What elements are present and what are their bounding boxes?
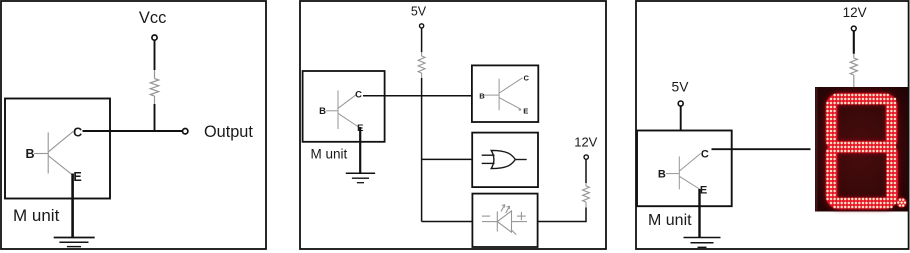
ground [346,173,375,182]
ground [54,238,95,247]
wire resistor to LED [538,208,586,222]
node 5V [672,80,690,106]
transistor Q1 [25,125,82,184]
LED D1 box [472,194,537,247]
wire collector to display [712,148,811,150]
wire 5V to M unit [680,106,682,130]
resistor R2 [418,52,425,82]
node 12V [574,134,597,159]
resistor R4 [850,54,857,88]
svg-text:12V: 12V [574,134,597,149]
OR gate U2 box [472,133,538,188]
node Output [183,123,254,141]
svg-text:M unit: M unit [311,146,348,161]
svg-text:M unit: M unit [648,212,692,229]
svg-text:B: B [479,91,485,100]
svg-text:B: B [319,106,326,117]
seven segment display DS1 [815,87,910,212]
svg-text:C: C [524,73,530,82]
M unit box [5,99,110,225]
M unit box [637,131,732,230]
svg-text:M unit: M unit [13,206,60,225]
wire collector to Output [83,130,183,132]
transistor Q3 [658,149,709,197]
wire branch to OR gate [422,158,473,160]
wire emitter to ground [359,127,361,173]
wire emitter to ground [71,174,74,238]
M unit box [303,71,385,161]
wire emitter to ground [698,189,700,238]
node 12V [843,5,867,31]
ground [684,238,721,248]
wire 12V to resistor [585,160,587,184]
wire 5V to resistor [421,28,423,52]
svg-text:5V: 5V [411,5,427,19]
svg-text:C: C [701,149,709,161]
svg-text:E: E [73,170,81,184]
panel frames [1,1,266,249]
svg-text:5V: 5V [672,80,690,95]
svg-text:C: C [355,90,362,101]
svg-text:Vcc: Vcc [139,9,167,27]
resistor R1 (Vcc pull-up) [150,70,158,104]
svg-text:B: B [25,147,34,161]
svg-text:12V: 12V [843,5,867,20]
resistor R3 [583,183,590,208]
svg-text:B: B [658,168,666,180]
svg-text:E: E [523,107,528,116]
svg-text:E: E [700,185,707,197]
node 5V [411,5,427,28]
svg-text:C: C [73,125,82,139]
wire 12V to resistor [853,31,855,54]
transistor U1 box [472,65,538,122]
wire branch to LED [422,221,473,223]
wire bus vertical [421,78,423,222]
node Vcc [139,9,167,40]
wire collector to transistor box (node A) [363,95,472,97]
svg-text:Output: Output [204,123,253,141]
wire Vcc to resistor [154,40,156,70]
wire resistor to output node [154,104,156,131]
transistor Q2 [319,90,363,135]
